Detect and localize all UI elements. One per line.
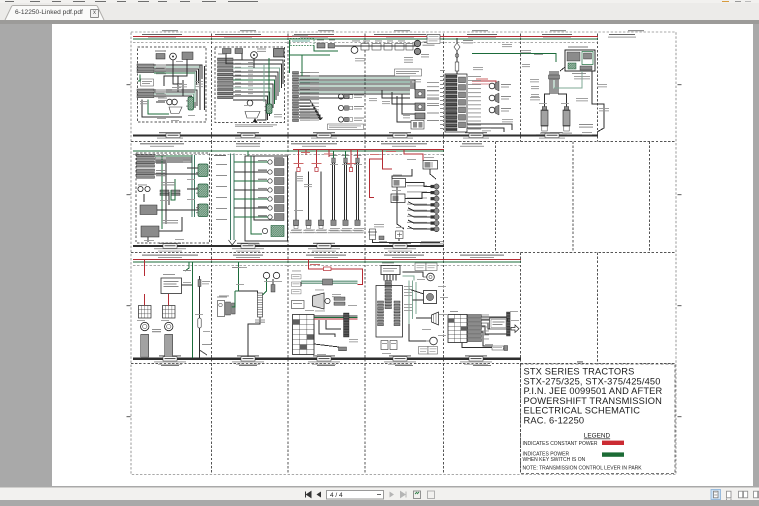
solenoid valve V1	[541, 107, 548, 132]
P1 P2 labels	[423, 42, 435, 46]
module M3	[140, 205, 157, 215]
cluster A wire harness	[142, 60, 202, 118]
G labels 2	[162, 220, 178, 223]
svg-text:STX-275/325, STX-375/425/450: STX-275/325, STX-375/425/450	[524, 376, 661, 386]
diode ground stub	[398, 239, 400, 242]
green control box	[290, 39, 314, 46]
cluster P wiring	[462, 317, 508, 349]
cluster A extra wires	[138, 73, 188, 102]
cluster G: cab harness dashed box	[136, 153, 210, 243]
module output wire	[182, 284, 193, 286]
row1 labels above power bus	[142, 34, 636, 38]
speaker SP1	[489, 81, 511, 115]
clutch switch S7	[351, 47, 358, 54]
column separator dashed line	[443, 34, 445, 142]
row4 top labels	[161, 365, 491, 366]
svg-text:P.I.N. JEE 0099501 AND AFTER: P.I.N. JEE 0099501 AND AFTER	[524, 386, 663, 396]
scattered wire labels row2	[138, 154, 434, 244]
bottom boxes	[381, 341, 397, 350]
lamp L2	[145, 186, 150, 191]
first page button	[306, 492, 312, 498]
fused circuits: red drops	[294, 149, 357, 171]
connector X3 labels	[218, 59, 232, 98]
green branch	[185, 262, 189, 271]
ground wire 2	[467, 128, 504, 132]
switch S2	[223, 49, 232, 54]
diode module	[396, 231, 404, 239]
main trunk harness	[299, 55, 410, 120]
relay K7	[196, 204, 208, 217]
bracket box	[271, 285, 275, 293]
drain wire	[592, 71, 604, 132]
big relay in panel	[262, 226, 284, 237]
cluster A low labels	[140, 101, 148, 104]
X6 labels	[156, 170, 166, 176]
ground bus label plates	[163, 133, 559, 361]
row1 ground bus labels	[157, 132, 565, 138]
lamp feed 1	[333, 151, 335, 158]
connector X6 block	[137, 169, 155, 178]
switch S3	[235, 49, 243, 54]
connector X5 block	[137, 155, 155, 168]
left cells	[378, 301, 384, 326]
module M2 dark box	[274, 49, 285, 58]
vertical connector bar	[507, 312, 511, 336]
column separator dashed line	[364, 34, 366, 142]
connector X3 mega stack	[218, 58, 234, 99]
duct labels	[216, 164, 227, 220]
horn H3	[247, 100, 253, 106]
switch S4 trapezoid	[245, 112, 260, 119]
cluster B: steering column dashed box	[215, 47, 285, 123]
column separator dashed line	[211, 142, 213, 253]
connector X4 labels	[300, 72, 310, 121]
relay K3	[186, 97, 194, 110]
inline fuse chain	[198, 276, 210, 358]
power outlet tower 2	[163, 306, 176, 358]
buzzer B2	[251, 52, 258, 59]
module M4	[141, 226, 159, 237]
connector X8	[171, 190, 180, 195]
transmission module U1	[565, 50, 595, 71]
legend plate bottom	[419, 347, 438, 355]
lamp L1	[138, 186, 143, 191]
view mode icon 4 (cut off)	[754, 491, 759, 498]
row2 drain wire	[373, 240, 441, 243]
small module box	[292, 301, 305, 309]
branch label	[183, 270, 191, 271]
horn H4	[263, 272, 269, 278]
outlet1 feed	[144, 294, 146, 306]
lamp module box	[161, 278, 182, 294]
key ring R2	[426, 337, 437, 345]
cluster M wiring	[232, 279, 274, 358]
key ring R1	[423, 273, 434, 281]
row2 ground bus labels	[154, 243, 416, 252]
module label	[568, 47, 588, 48]
table side cells	[468, 315, 482, 342]
svg-text:LEGEND: LEGEND	[584, 433, 611, 440]
connector X10 strip	[385, 281, 392, 309]
switched feed wire	[472, 54, 556, 63]
teal harness band	[301, 279, 358, 286]
ladder labels	[255, 320, 265, 323]
left border zone ticks	[127, 84, 682, 417]
solenoid valve V2	[563, 107, 570, 132]
terminal box D4	[411, 121, 424, 130]
row1 ground bus	[133, 134, 598, 136]
relay chain row	[335, 44, 417, 51]
gray separator bar	[0, 20, 759, 24]
connector table	[448, 315, 467, 343]
row1 switched power bus (green)	[133, 38, 598, 40]
row2 bus lower dashed line	[133, 153, 444, 155]
valve labels	[579, 124, 593, 128]
next view icon	[428, 491, 435, 499]
relay K5	[196, 164, 208, 177]
cluster G wiring	[144, 155, 198, 242]
scattered wire labels row1	[155, 36, 607, 132]
connector P1 round	[414, 40, 420, 46]
alternator cone	[313, 293, 331, 309]
horn H2	[172, 99, 178, 105]
cluster E/F extra labels	[502, 44, 609, 135]
row3 constant power bus (red)	[133, 258, 521, 260]
X5 labels	[156, 155, 166, 164]
switch S1 trapezoid	[169, 107, 182, 114]
svg-text:WHEN KEY SWITCH IS ON: WHEN KEY SWITCH IS ON	[523, 457, 586, 463]
view mode icon 3 (two page)	[739, 491, 748, 498]
row boundary 4 dashed line	[131, 363, 676, 365]
buzzer B1	[170, 53, 177, 60]
column separator dashed line	[597, 34, 599, 142]
bottom connector tag	[492, 346, 508, 351]
column separator dashed line	[287, 253, 289, 364]
column separator dashed line	[364, 364, 366, 474]
menu bar sliver	[0, 0, 759, 3]
legend constant power row	[523, 441, 625, 447]
cluster B note line	[235, 125, 277, 128]
legend plate top	[415, 263, 437, 271]
power outlet tower 1	[139, 306, 152, 358]
outlet2 feed	[168, 294, 170, 306]
svg-text:NOTE: TRANSMISSION CONTROL LEV: NOTE: TRANSMISSION CONTROL LEVER IN PARK	[523, 465, 643, 471]
big control box	[376, 286, 403, 338]
three label plates	[292, 275, 302, 294]
column separator dashed line	[649, 142, 651, 253]
multicolor band	[314, 313, 358, 337]
connector X1 labels	[156, 65, 165, 73]
pin numbers left	[440, 76, 444, 129]
column separator dashed line	[287, 34, 289, 142]
row2 switched power bus (green)	[133, 150, 444, 152]
column separator dashed line	[520, 34, 522, 142]
column separator dashed line	[572, 142, 574, 253]
teal riser wires	[403, 272, 432, 341]
column separator dashed line	[364, 142, 366, 253]
row boundary 3 dashed line	[131, 252, 676, 254]
view mode icon 2	[727, 491, 732, 500]
cluster D top labels 2	[421, 54, 429, 57]
cluster A mid labels	[172, 87, 181, 90]
component K1 flasher	[156, 54, 165, 60]
right cells	[394, 301, 400, 326]
switch S5	[317, 43, 325, 48]
long green wire	[192, 262, 194, 358]
fuse box table	[293, 315, 315, 355]
svg-text:STX SERIES TRACTORS: STX SERIES TRACTORS	[524, 367, 635, 377]
note leader	[200, 350, 208, 355]
connector X7	[160, 190, 169, 195]
green feed wires	[290, 40, 339, 73]
svg-text:ELECTRICAL SCHEMATIC: ELECTRICAL SCHEMATIC	[524, 406, 641, 416]
row1 constant power bus (red)	[133, 36, 598, 38]
horn H1	[167, 99, 173, 105]
terminal ladder	[258, 293, 263, 317]
relay K4	[265, 104, 273, 114]
schematic outer dashed border	[131, 32, 676, 475]
view mode icon 1 (active)	[711, 490, 721, 500]
antenna chain: diode fuse	[454, 38, 460, 75]
G labels	[161, 182, 175, 185]
row3 labels above bus	[142, 255, 504, 258]
tab bar	[0, 3, 759, 20]
row2 labels above bus	[140, 143, 484, 147]
column separator dashed line	[443, 253, 445, 364]
column separator dashed line	[287, 142, 289, 253]
zone labels top border	[162, 30, 644, 31]
note box N2	[328, 124, 364, 130]
output driver D3	[415, 113, 425, 119]
cluster A small labels	[158, 98, 167, 101]
row2 ground bus	[133, 245, 444, 247]
descending wires	[314, 320, 341, 347]
row3 switched power bus (green)	[133, 261, 521, 263]
row boundary 2 dashed line	[131, 141, 676, 143]
lamp feed 3	[357, 149, 359, 158]
relay bank inside panel	[258, 159, 284, 221]
status bar	[0, 487, 759, 500]
sensor S8	[424, 291, 437, 304]
note under cluster J	[421, 240, 443, 243]
svg-text:RAC. 6-12250: RAC. 6-12250	[524, 416, 585, 426]
row1 bus lower dashed line	[133, 42, 598, 44]
svg-text:POWERSHIFT TRANSMISSION: POWERSHIFT TRANSMISSION	[524, 396, 662, 406]
round connector column	[407, 184, 439, 232]
row3 ground bus	[133, 358, 521, 360]
horn H5	[273, 272, 279, 278]
fuse-relay center panel (solid box)	[245, 156, 288, 241]
prev view icon	[414, 491, 421, 499]
cluster A: front console dashed box	[138, 47, 207, 122]
data arrow	[511, 325, 519, 333]
cluster D top labels	[404, 57, 413, 63]
main harness connector block (dense)	[445, 74, 467, 132]
note box N1	[395, 69, 422, 76]
speaker cone SP2	[432, 312, 439, 325]
column separator dashed line	[287, 364, 289, 474]
three lamp assemblies	[328, 155, 364, 233]
column separator dashed line	[364, 253, 366, 364]
cluster A connector rail	[204, 66, 206, 110]
red feed wires	[472, 79, 496, 88]
relay K6	[196, 184, 208, 197]
cluster B wire harness	[226, 54, 283, 123]
red branch network	[370, 149, 424, 197]
scattered wire labels row3	[137, 263, 519, 355]
relay K10	[391, 194, 405, 203]
column separator dashed line	[211, 364, 213, 474]
output driver D2	[415, 103, 425, 111]
legend switched power row	[523, 452, 625, 463]
three accessory towers	[290, 172, 327, 234]
row3 bus lower dashed line	[133, 264, 521, 266]
column separator dashed line	[597, 253, 599, 364]
column separator dashed line	[443, 364, 445, 474]
red bus risers	[301, 149, 333, 157]
diag note	[202, 343, 212, 346]
connector P2 round	[414, 48, 420, 54]
last page button (disabled)	[401, 492, 407, 498]
module M1 label box	[141, 79, 154, 86]
solenoid group	[338, 94, 364, 122]
page number tick	[577, 361, 583, 362]
cluster D link wires	[382, 80, 415, 122]
connector group CM	[218, 301, 236, 317]
bottom connector	[339, 347, 347, 351]
connector X9 pair	[334, 297, 345, 305]
teal duct	[192, 155, 195, 217]
drop label	[232, 267, 241, 268]
svg-text:4 / 4: 4 / 4	[330, 492, 343, 499]
seat module	[381, 266, 400, 275]
row3 ground bus labels	[154, 355, 492, 364]
connector X4 tall strip	[293, 72, 299, 122]
ground wire	[467, 124, 512, 130]
tiny note row2 right	[420, 243, 444, 246]
next page button (disabled)	[390, 492, 395, 498]
module pin wires	[384, 275, 396, 281]
lamp feed 2	[345, 151, 347, 158]
battery symbol G1	[368, 229, 377, 240]
relay K2	[182, 52, 193, 60]
chain labels	[463, 40, 473, 43]
switch S6	[328, 44, 335, 49]
output driver D1	[415, 90, 425, 99]
row2 constant power bus (red)	[293, 148, 444, 150]
relay K8	[423, 161, 438, 170]
page number input	[327, 491, 384, 500]
title text	[524, 367, 663, 426]
prev page button	[317, 492, 322, 498]
column separator dashed line	[520, 253, 522, 364]
module harness	[545, 67, 583, 110]
cluster D top label boxes	[427, 35, 440, 44]
cluster J wiring	[392, 169, 436, 229]
relay K9	[392, 179, 406, 188]
connector X2 stack	[137, 89, 154, 98]
column separator dashed line	[443, 142, 445, 253]
outlet labels	[152, 329, 161, 332]
svg-text:INDICATES CONSTANT POWER: INDICATES CONSTANT POWER	[523, 441, 598, 447]
connector X2 labels	[156, 90, 165, 98]
title block dashed box	[521, 364, 676, 474]
column separator dashed line	[520, 364, 522, 474]
driver labels	[427, 90, 439, 121]
column separator dashed line	[211, 253, 213, 364]
teal duct with arrow	[229, 154, 237, 246]
column separator dashed line	[211, 34, 213, 142]
panel feed wires	[234, 151, 274, 234]
red fused feed	[309, 259, 363, 284]
column separator dashed line	[495, 142, 497, 253]
connector X1 stack	[137, 64, 154, 73]
green drop wire	[235, 262, 239, 291]
sensor box	[379, 236, 384, 240]
display label box	[490, 318, 508, 329]
